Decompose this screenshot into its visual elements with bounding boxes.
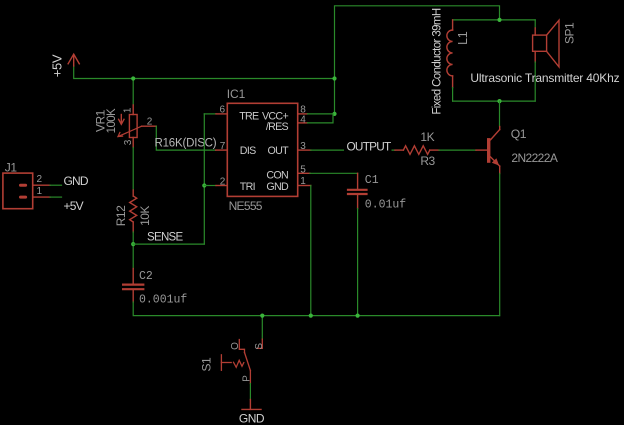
svg-text:100K: 100K: [106, 108, 118, 133]
wire collector: [499, 101, 501, 126]
wire top bus: [335, 6, 500, 114]
junction TRI: [202, 183, 206, 187]
wire S1 branch: [261, 316, 263, 340]
svg-text:DIS: DIS: [240, 145, 256, 157]
svg-text:1: 1: [122, 107, 133, 113]
wire S1 pole to ground: [249, 384, 251, 400]
wire emitter to bus: [499, 174, 501, 316]
wire +5V rail: [74, 66, 335, 79]
svg-text:NE555: NE555: [229, 199, 263, 213]
capacitor C2: [123, 269, 143, 303]
svg-text:SP1: SP1: [563, 22, 577, 44]
wire L1 bottom to loop: [452, 88, 454, 102]
wire loop right bottom: [534, 62, 536, 101]
svg-text:R3: R3: [420, 154, 435, 168]
svg-text:OUTPUT: OUTPUT: [347, 139, 392, 153]
svg-text:TRI: TRI: [240, 181, 255, 193]
svg-text:J1: J1: [5, 161, 18, 175]
wire L1 loop bottom: [453, 100, 536, 102]
svg-text:7: 7: [220, 141, 226, 152]
pin 4 stub: [298, 122, 308, 124]
wire SENSE net: [133, 243, 204, 245]
pin 8 stub: [298, 113, 308, 115]
junction pin 8: [332, 112, 336, 116]
wire bottom bus: [133, 302, 499, 316]
wire to pin 6: [204, 113, 216, 115]
svg-text:R12: R12: [114, 205, 128, 226]
svg-text:P: P: [241, 375, 252, 382]
svg-text:10K: 10K: [138, 206, 152, 226]
svg-text:/RES: /RES: [266, 121, 289, 133]
wire pin 8 to supply: [308, 113, 335, 115]
svg-text:2N2222A: 2N2222A: [511, 151, 557, 165]
capacitor C1: [348, 173, 367, 208]
svg-text:1: 1: [300, 176, 306, 187]
wire L1 loop top: [453, 19, 536, 21]
IC1 NE555 body: [227, 103, 297, 196]
ground symbol: [242, 400, 261, 410]
wire loop right top: [534, 20, 536, 28]
wire VR1 branch: [132, 79, 134, 106]
junction C1/bus: [356, 314, 360, 318]
speaker SP1: [533, 20, 559, 67]
pin 5 stub: [298, 172, 310, 174]
junction +5V/VR1: [131, 76, 135, 80]
svg-text:R16K(DISC): R16K(DISC): [155, 137, 217, 149]
svg-text:GND: GND: [239, 412, 265, 425]
svg-text:5: 5: [300, 164, 306, 175]
svg-text:GND: GND: [266, 181, 289, 193]
wire VR1 wiper to DIS: [156, 126, 215, 150]
resistor R3: [395, 146, 439, 155]
svg-text:IC1: IC1: [227, 87, 246, 101]
pin 3 stub: [298, 149, 311, 151]
pin 6 stub: [216, 113, 227, 115]
junction loop top: [497, 18, 501, 22]
svg-text:TRE: TRE: [239, 111, 259, 123]
svg-text:Q1: Q1: [511, 127, 527, 141]
svg-text:C1: C1: [365, 174, 379, 187]
resistor R12: [130, 190, 137, 232]
svg-text:+5V: +5V: [64, 199, 84, 213]
junction SENSE: [131, 242, 135, 246]
junction pin1/bus: [309, 314, 313, 318]
junction loop bottom: [497, 99, 501, 103]
net label OUTPUT: [344, 140, 392, 151]
wire R12 to SENSE junction: [132, 232, 134, 269]
svg-text:0.001uf: 0.001uf: [139, 293, 187, 306]
junction S1/bus: [260, 314, 264, 318]
svg-text:2: 2: [37, 174, 43, 185]
svg-text:OUT: OUT: [268, 145, 290, 157]
svg-text:1: 1: [37, 186, 43, 197]
svg-text:Fixed Conductor 39mH: Fixed Conductor 39mH: [432, 8, 444, 115]
svg-text:CON: CON: [266, 169, 288, 181]
svg-text:3: 3: [123, 139, 134, 145]
wire R3 to base: [439, 149, 476, 151]
svg-text:+5V: +5V: [50, 54, 65, 77]
svg-text:0.01uf: 0.01uf: [365, 198, 407, 211]
pin 1 stub: [298, 185, 311, 187]
svg-text:2: 2: [147, 117, 153, 128]
svg-text:2: 2: [220, 176, 226, 187]
switch S1: [221, 339, 262, 383]
wire to pin 2: [204, 185, 216, 187]
transistor Q1: [476, 127, 500, 174]
wire VR1 to R12: [132, 148, 134, 191]
wire J1 pin2 net: [50, 184, 62, 186]
junction +5V/IC supply: [332, 76, 336, 80]
svg-text:C2: C2: [139, 270, 153, 283]
svg-text:GND: GND: [64, 174, 89, 188]
connector J1: [3, 173, 50, 209]
svg-text:O: O: [230, 342, 241, 350]
wire pin 4 to supply: [308, 114, 334, 123]
potentiometer VR1: [118, 105, 156, 148]
svg-text:S1: S1: [199, 357, 213, 372]
svg-text:6: 6: [219, 105, 225, 116]
pin 7 stub: [216, 149, 228, 151]
wire C1 to bus: [357, 209, 359, 316]
inductor L1: [447, 20, 453, 88]
svg-text:SENSE: SENSE: [147, 231, 184, 243]
svg-text:L1: L1: [456, 31, 470, 45]
svg-text:S: S: [254, 343, 265, 350]
wire OUTPUT net: [311, 149, 395, 151]
svg-text:Ultrasonic Transmitter 40Khz: Ultrasonic Transmitter 40Khz: [470, 71, 619, 85]
wire TRE/TRI vertical: [203, 114, 205, 244]
pin 2 stub: [216, 185, 227, 187]
wire J1 pin1 net: [50, 196, 62, 198]
wire pin 1 to bus: [310, 186, 312, 316]
svg-text:1K: 1K: [420, 130, 434, 144]
+5V supply arrow: [68, 54, 79, 66]
svg-text:3: 3: [300, 141, 306, 152]
wire pin 5 to C1: [310, 172, 358, 174]
svg-text:4: 4: [300, 114, 306, 125]
